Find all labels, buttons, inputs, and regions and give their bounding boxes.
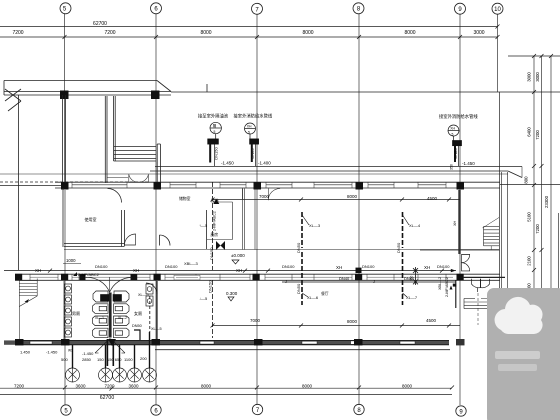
svg-text:接室外消防给水管线: 接室外消防给水管线 xyxy=(234,113,273,120)
svg-text:150 650: 150 650 xyxy=(107,357,122,362)
center partition xyxy=(109,293,112,338)
svg-text:DN80: DN80 xyxy=(453,148,458,159)
svg-text:-1.450: -1.450 xyxy=(46,350,58,355)
east entrance walls xyxy=(420,92,508,345)
riser XL-3 xyxy=(301,212,303,305)
svg-text:5: 5 xyxy=(214,130,216,134)
svg-text:男厕: 男厕 xyxy=(72,310,80,316)
column south G5 xyxy=(61,339,70,345)
bottom dim ticks xyxy=(63,386,454,391)
svg-text:4500: 4500 xyxy=(426,318,437,323)
door arc big room west xyxy=(268,189,280,201)
svg-text:DN100: DN100 xyxy=(282,264,295,269)
svg-text:XL—1: XL—1 xyxy=(95,316,104,320)
fire riser XH mid xyxy=(245,123,259,166)
svg-text:2-MF/ABC2: 2-MF/ABC2 xyxy=(213,211,217,231)
grid line 6 xyxy=(155,14,157,406)
grid bubble 8 top xyxy=(353,3,364,14)
canopy line SE xyxy=(500,184,560,186)
svg-text:DN100: DN100 xyxy=(437,264,450,269)
svg-text:3600: 3600 xyxy=(128,384,139,389)
svg-text:DN100: DN100 xyxy=(362,264,375,269)
top dim texts xyxy=(12,21,484,36)
svg-text:3600: 3600 xyxy=(75,384,86,389)
column band2 G9 xyxy=(457,274,464,281)
interior dim line y199 xyxy=(212,199,460,201)
small rooms mid-left walls xyxy=(160,210,207,249)
kitchen grease riser xyxy=(208,122,222,166)
svg-text:XL—6: XL—6 xyxy=(307,295,319,300)
column band2 G6 xyxy=(154,274,161,281)
svg-text:XH: XH xyxy=(453,220,457,226)
svg-text:XH: XH xyxy=(247,125,252,129)
stair double door petals xyxy=(129,174,149,182)
pipe arrow mid xyxy=(213,199,219,204)
svg-text:2-MF/ABC2: 2-MF/ABC2 xyxy=(78,272,100,277)
left stair block xyxy=(19,279,37,346)
band1 window ticks xyxy=(72,182,446,188)
door jambs below band1 xyxy=(242,189,244,200)
svg-text:DN40: DN40 xyxy=(339,276,350,281)
svg-text:J: J xyxy=(373,279,375,284)
toilet entrance arcs xyxy=(109,277,111,293)
column band1 G8 xyxy=(356,182,364,189)
kitchen drain pipe mid xyxy=(212,182,214,338)
svg-text:2850: 2850 xyxy=(82,357,92,362)
DN100 labels xyxy=(95,264,450,269)
svg-text:3000: 3000 xyxy=(527,72,532,82)
stall row 1 xyxy=(93,304,109,314)
stair room details xyxy=(207,189,255,250)
svg-text:62700: 62700 xyxy=(93,21,107,27)
column south G8 xyxy=(354,339,363,345)
svg-text:↑—5: ↑—5 xyxy=(199,223,208,228)
ramp NW corner xyxy=(5,89,21,101)
top dimension line segments xyxy=(0,36,498,38)
svg-text:7200: 7200 xyxy=(104,384,115,389)
column band1 G6 xyxy=(154,182,162,189)
grid line 8 xyxy=(358,14,360,406)
toilet entrance pier left xyxy=(80,274,86,280)
fire riser XH right xyxy=(448,125,462,166)
riser dn labels rotated xyxy=(214,147,459,160)
riser XL-4 xyxy=(402,212,404,305)
kitchen vent stub xyxy=(206,84,208,92)
column south G6 xyxy=(152,339,161,345)
column G5 north wall xyxy=(60,91,69,100)
svg-text:5100: 5100 xyxy=(527,212,532,222)
svg-text:3000: 3000 xyxy=(535,72,540,82)
room 使用室 walls xyxy=(63,188,136,247)
svg-text:800: 800 xyxy=(524,176,529,184)
interior wall x105-107 xyxy=(104,96,106,183)
svg-text:XH: XH xyxy=(336,265,342,270)
right vertical dim line a xyxy=(533,56,535,310)
toilet block outer walls xyxy=(64,277,157,339)
column band1 G7 xyxy=(254,182,262,189)
svg-text:2-MF/ABC2: 2-MF/ABC2 xyxy=(445,277,449,297)
wall band 2 y274-281 xyxy=(15,274,500,280)
corridor upper line xyxy=(0,167,560,185)
svg-text:XL—5: XL—5 xyxy=(151,327,162,331)
2-MF/ABC2 annotation left xyxy=(78,272,100,277)
svg-text:XH: XH xyxy=(133,268,139,273)
north wall upper-left block xyxy=(4,91,171,93)
svg-text:-1.450: -1.450 xyxy=(82,351,94,356)
wall on grid5 vertical xyxy=(62,95,64,185)
svg-text:8000: 8000 xyxy=(347,319,358,324)
svg-text:8000: 8000 xyxy=(200,30,211,36)
column south G9 xyxy=(456,339,465,345)
svg-text:1000: 1000 xyxy=(66,258,76,263)
svg-text:DN40: DN40 xyxy=(404,276,415,281)
column band2 G8 xyxy=(355,274,362,281)
junction box on XH at G8 xyxy=(356,268,362,273)
svg-text:接室外消防给水管线: 接室外消防给水管线 xyxy=(439,113,478,120)
stair treads upper-left xyxy=(114,146,156,148)
svg-text:5: 5 xyxy=(248,130,250,134)
svg-text:XL—5: XL—5 xyxy=(138,293,149,297)
thick wall line east porch xyxy=(463,276,505,278)
svg-text:6400: 6400 xyxy=(527,127,532,137)
stall row 3 xyxy=(93,328,109,338)
bottom dim line segments xyxy=(0,387,452,389)
wash basins left wall xyxy=(65,284,72,293)
grid bubble 7 top xyxy=(252,3,263,14)
svg-text:7200: 7200 xyxy=(12,30,23,36)
column south G7 xyxy=(254,339,263,345)
svg-text:8000: 8000 xyxy=(347,194,358,199)
floor drains row xyxy=(66,296,157,382)
corridor dashed centerline xyxy=(0,181,150,183)
svg-text:XL—3: XL—3 xyxy=(309,223,321,228)
north roof line xyxy=(4,81,560,112)
svg-text:储物室: 储物室 xyxy=(179,196,191,201)
window lines band1 xyxy=(72,184,127,186)
elevation labels row xyxy=(221,161,475,171)
svg-text:-1.450: -1.450 xyxy=(221,161,234,166)
J labels xyxy=(285,276,415,284)
svg-text:7200: 7200 xyxy=(535,224,540,234)
door arc storeroom xyxy=(160,235,171,246)
svg-text:DN150: DN150 xyxy=(209,247,214,260)
svg-text:8000: 8000 xyxy=(302,30,313,36)
stair room wall right xyxy=(156,144,158,182)
right vertical dim line d xyxy=(558,213,560,310)
svg-text:0.300: 0.300 xyxy=(226,291,238,296)
svg-text:DN100: DN100 xyxy=(95,264,108,269)
column south G5' xyxy=(15,339,24,345)
lower long wall line y249 xyxy=(64,249,499,251)
XH main line y270 xyxy=(4,269,456,273)
svg-text:7200: 7200 xyxy=(535,130,540,140)
left exterior wall xyxy=(18,95,20,270)
toilet fixtures xyxy=(65,283,158,338)
svg-text:使用室: 使用室 xyxy=(85,216,97,222)
column band1 G5 xyxy=(61,182,69,189)
stall row 2 xyxy=(93,316,109,326)
band2 window ticks xyxy=(30,274,446,280)
svg-text:DN150: DN150 xyxy=(208,280,213,293)
svg-text:XH: XH xyxy=(450,127,455,131)
svg-text:DN50: DN50 xyxy=(396,242,401,253)
corridor SE diagonal xyxy=(508,171,522,178)
svg-text:餐厅: 餐厅 xyxy=(321,291,329,296)
corridor line B xyxy=(150,170,508,172)
svg-text:8000: 8000 xyxy=(404,30,415,36)
svg-text:3000: 3000 xyxy=(473,30,484,36)
svg-text:XH: XH xyxy=(35,268,41,273)
svg-text:XL—2: XL—2 xyxy=(118,316,127,320)
roof diagonal xyxy=(157,81,171,92)
east wall xyxy=(499,92,501,345)
interior dim line y325 xyxy=(212,325,460,327)
svg-text:7200: 7200 xyxy=(14,384,25,389)
bottom total dim line xyxy=(0,394,452,396)
svg-text:DN50: DN50 xyxy=(296,242,301,253)
door arc room1 xyxy=(108,189,122,203)
XH labels on line xyxy=(35,265,430,273)
terrace line xyxy=(155,349,450,351)
svg-text:XL—4: XL—4 xyxy=(409,223,421,228)
svg-text:500: 500 xyxy=(61,357,68,362)
svg-text:-1.400: -1.400 xyxy=(258,161,271,166)
svg-text:厨房: 厨房 xyxy=(211,232,219,237)
svg-text:10: 10 xyxy=(494,7,501,13)
right dim arrows xyxy=(532,54,553,348)
column band1 G9 xyxy=(457,182,465,189)
grid line 7 xyxy=(256,14,258,405)
XL-5 elbow pipe xyxy=(134,330,140,345)
branch valve assembly x415 xyxy=(413,267,418,285)
svg-text:XH: XH xyxy=(236,268,242,273)
svg-text:200: 200 xyxy=(140,356,147,361)
SE stair xyxy=(464,293,520,325)
svg-text:XBL—2: XBL—2 xyxy=(438,277,442,290)
upper-left block interior xyxy=(19,95,161,270)
svg-text:XH: XH xyxy=(424,265,430,270)
svg-text:1100: 1100 xyxy=(124,357,133,362)
interior wall x113-115 xyxy=(113,96,115,161)
valve bowtie xyxy=(216,241,225,250)
svg-text:2100: 2100 xyxy=(527,256,532,266)
svg-text:DN100: DN100 xyxy=(165,264,178,269)
svg-text:23300: 23300 xyxy=(544,195,549,208)
column band2 G7 xyxy=(253,274,260,281)
svg-text:7000: 7000 xyxy=(250,318,261,323)
grid bubble 6 top xyxy=(151,3,162,14)
svg-text:XL—7: XL—7 xyxy=(406,295,418,300)
grid line 10 xyxy=(497,14,499,92)
under-wall dim texts xyxy=(20,349,147,363)
svg-text:J: J xyxy=(285,279,287,284)
svg-text:DN50: DN50 xyxy=(296,283,301,294)
window gaps xyxy=(200,341,214,344)
grid bubble 10 top xyxy=(492,3,503,14)
svg-text:隔: 隔 xyxy=(213,123,217,128)
svg-text:女厕: 女厕 xyxy=(134,310,142,316)
column band2 left xyxy=(15,274,22,281)
grid bubble 5 top xyxy=(60,3,71,14)
J water line xyxy=(282,281,456,283)
grid bubble 9 top xyxy=(455,3,466,14)
waste pipe fan-out under toilet xyxy=(95,339,125,354)
XH arrival annotation right xyxy=(438,277,449,297)
svg-text:5: 5 xyxy=(452,132,454,136)
svg-text:W1: W1 xyxy=(68,349,73,353)
svg-text:DN150: DN150 xyxy=(214,147,219,160)
svg-text:7000: 7000 xyxy=(259,194,270,199)
XBL-2 black fittings xyxy=(450,286,453,290)
urinal trough top xyxy=(93,291,108,302)
svg-text:8000: 8000 xyxy=(402,384,413,389)
riser labels xyxy=(198,113,478,121)
svg-text:接至室外隔油池: 接至室外隔油池 xyxy=(198,113,229,120)
XH end arrow right xyxy=(451,269,456,272)
double door east vertical xyxy=(462,255,490,293)
bottom grid bubbles xyxy=(61,404,503,416)
svg-text:↓—5: ↓—5 xyxy=(199,296,208,301)
basins right room xyxy=(146,283,157,294)
svg-text:-1.450: -1.450 xyxy=(462,161,475,166)
watermark chip xyxy=(487,288,560,420)
right vertical dim line b xyxy=(541,56,543,310)
east room north wall xyxy=(420,249,500,251)
double door south xyxy=(472,279,481,288)
svg-text:7200: 7200 xyxy=(104,30,115,36)
right vertical dim line c xyxy=(550,56,552,350)
stair landing edge xyxy=(107,177,128,179)
right dim tie top xyxy=(508,56,560,350)
svg-text:62700: 62700 xyxy=(100,395,115,401)
top dimension line total 62700 xyxy=(0,26,498,28)
wall band 1 y181-188 xyxy=(0,182,500,188)
svg-text:1.450: 1.450 xyxy=(20,350,31,355)
svg-text:4500: 4500 xyxy=(427,196,438,201)
right dim rotated texts xyxy=(504,72,549,310)
svg-text:350: 350 xyxy=(450,164,454,170)
column band2 G5 xyxy=(61,274,68,281)
svg-text:DN50: DN50 xyxy=(132,324,142,328)
window frame label band2 xyxy=(174,275,200,280)
grid line 5 xyxy=(64,14,66,183)
grid line 9 xyxy=(459,14,461,405)
svg-text:±0.000: ±0.000 xyxy=(231,253,245,258)
porch line xyxy=(507,172,509,306)
toilet entrance pier right xyxy=(131,274,138,280)
svg-text:XBL—3: XBL—3 xyxy=(184,261,199,266)
svg-text:DN65: DN65 xyxy=(250,148,255,159)
svg-text:8000: 8000 xyxy=(302,384,313,389)
column G6 north wall xyxy=(151,91,160,100)
top dim ticks xyxy=(63,25,500,40)
svg-text:150: 150 xyxy=(97,357,104,362)
south wall band y339-345 xyxy=(4,340,449,344)
north boundary line right part xyxy=(171,91,560,93)
svg-text:8000: 8000 xyxy=(201,384,212,389)
NE stair xyxy=(483,218,500,250)
